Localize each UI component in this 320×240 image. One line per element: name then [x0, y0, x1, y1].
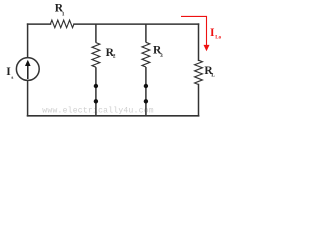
svg-text:Lo: Lo	[215, 36, 221, 41]
svg-text:L: L	[211, 73, 215, 79]
svg-text:1: 1	[62, 11, 65, 17]
wire top segment A	[28, 23, 51, 25]
wire branch R2 lower	[95, 67, 97, 116]
wire top segment B	[74, 23, 199, 25]
svg-text:www.electrically4u.com: www.electrically4u.com	[42, 106, 154, 115]
resistor R3	[142, 42, 150, 67]
wire right-top	[198, 24, 200, 60]
wire left-top	[27, 24, 29, 58]
svg-text:2: 2	[113, 54, 116, 60]
node dot branch R2 lower	[94, 99, 98, 103]
resistor R1	[50, 20, 74, 28]
svg-text:s: s	[11, 76, 13, 81]
current arrow IL	[181, 16, 210, 51]
wire bottom	[28, 115, 199, 117]
svg-text:3: 3	[160, 53, 163, 59]
resistor RL	[195, 60, 203, 84]
node dot branch R3 lower	[144, 99, 148, 103]
svg-text:I: I	[210, 27, 215, 39]
wire branch R3 lower	[145, 67, 147, 116]
wire right-bottom	[198, 85, 200, 116]
wire left-bottom	[27, 80, 29, 116]
current source Is	[16, 58, 39, 81]
node dot branch R2 upper	[94, 84, 98, 88]
resistor R2	[92, 43, 100, 68]
wire branch R2 upper	[95, 24, 97, 43]
wire branch R3 upper	[145, 24, 147, 42]
node dot branch R3 upper	[144, 84, 148, 88]
